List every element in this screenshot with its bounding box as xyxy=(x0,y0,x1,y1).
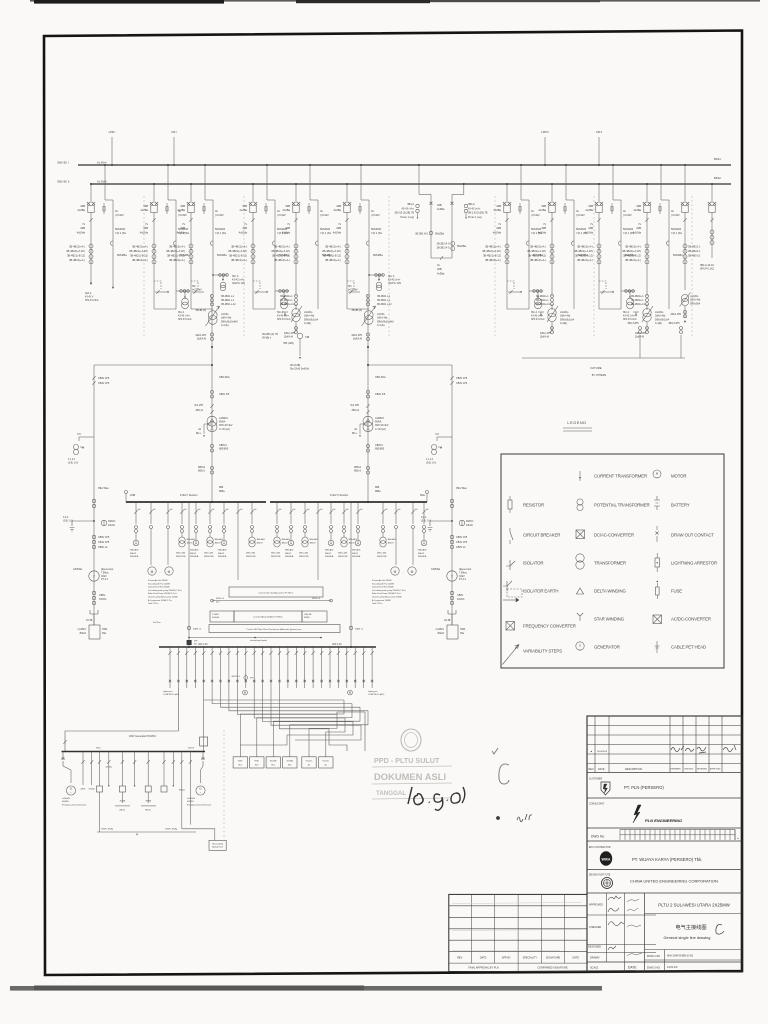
main chain 1 transformer T1a with tap changer xyxy=(208,311,217,320)
svg-text:3B-4B21 s-1: 3B-4B21 s-1 xyxy=(377,295,391,298)
svg-text:3M, A: 3M, A xyxy=(623,311,630,314)
svg-text:CB6x 3/5: CB6x 3/5 xyxy=(219,393,230,396)
dwg number strip xyxy=(587,840,742,842)
main chain 1 lower CT pair after trafo xyxy=(210,333,213,336)
feeder group 10 draw-out breakers xyxy=(551,184,553,203)
svg-text:DOKUMEN ASLI: DOKUMEN ASLI xyxy=(374,771,446,782)
emergency bus right tie xyxy=(329,729,347,751)
svg-text:5MxZM4: 5MxZM4 xyxy=(576,227,587,231)
legend frequency converter xyxy=(506,622,515,631)
6.3kV feeder 4 wire xyxy=(181,502,183,524)
svg-text:BT12Mb: BT12Mb xyxy=(287,761,293,763)
bus 400V AC station service xyxy=(159,646,376,648)
station chain right CT pair upper xyxy=(450,376,453,380)
svg-text:CHECKED: CHECKED xyxy=(684,769,694,771)
svg-text:1003-D0: 1003-D0 xyxy=(667,965,678,969)
WIKA logo xyxy=(600,851,612,866)
svg-text:BB-4C: BB-4C xyxy=(145,810,151,812)
feeder group 10 cable pot head xyxy=(571,241,574,246)
feeder group 11 draw-out breakers xyxy=(598,184,600,203)
svg-text:6B6a: 6B6a xyxy=(375,490,381,493)
svg-text:Y(d 1 (Pa: Y(d 1 (Pa xyxy=(371,231,383,235)
svg-text:C6kV: C6kV xyxy=(101,576,107,578)
svg-text:3B-4B21(+A 1P): 3B-4B21(+A 1P) xyxy=(166,249,185,253)
feeder group 12 cable pot head xyxy=(666,241,669,246)
svg-text:4x6: 4x6 xyxy=(279,509,282,511)
svg-text:3dB: 3dB xyxy=(242,226,247,230)
svg-text:Induced Draft Fan 560kW: Induced Draft Fan 560kW xyxy=(372,586,394,589)
svg-text:HAB,: HAB, xyxy=(460,628,466,631)
legend current transformer xyxy=(579,471,581,481)
emergency generator right xyxy=(201,752,205,767)
svg-text:3dB: 3dB xyxy=(588,226,593,230)
spare load circle left xyxy=(243,690,248,695)
svg-text:3B6sA05: 3B6sA05 xyxy=(325,549,334,552)
svg-text:4x6: 4x6 xyxy=(254,509,257,511)
emergency feeder 10 lighting xyxy=(181,752,183,829)
svg-text:3B-2B2 (4 f): 3B-2B2 (4 f) xyxy=(437,243,450,246)
box feed wires xyxy=(240,700,344,757)
svg-text:PPD - PLTU SULUT: PPD - PLTU SULUT xyxy=(374,756,440,765)
svg-text:3B-4B21s-12: 3B-4B21s-12 xyxy=(631,303,646,306)
svg-text:CB4V 1P5: CB4V 1P5 xyxy=(98,382,110,385)
svg-text:3B-4B21 s-1: 3B-4B21 s-1 xyxy=(221,299,235,302)
legend lightning arrestor xyxy=(655,558,660,567)
main plant powerhouse option zone box xyxy=(209,625,340,633)
main chain 1 isolator ticks xyxy=(210,404,213,408)
svg-text:3dB: 3dB xyxy=(336,204,341,208)
svg-text:5MxZBa: 5MxZBa xyxy=(673,253,683,257)
emergency feeder 1 xyxy=(82,752,84,786)
svg-text:3B6sA05: 3B6sA05 xyxy=(418,549,427,552)
svg-text:5MxZBa: 5MxZBa xyxy=(435,233,445,236)
svg-text:5B6s 4dS: 5B6s 4dS xyxy=(204,553,214,555)
svg-text:EPC CONTRACTOR: EPC CONTRACTOR xyxy=(589,846,611,849)
svg-text:59Kb/5b10x4: 59Kb/5b10x4 xyxy=(304,318,319,321)
svg-text:Interlocking header: Interlocking header xyxy=(250,639,267,642)
svg-text:3B4 s2: 3B4 s2 xyxy=(196,409,204,412)
svg-text:(3 B) 1 kV: (3 B) 1 kV xyxy=(68,462,79,464)
svg-text:3 x 4 A: 3 x 4 A xyxy=(68,458,75,461)
svg-text:FUTURE: FUTURE xyxy=(590,366,601,370)
feeder group 2 bypass loop wire xyxy=(175,212,177,309)
feeder group 6 PT metering branch xyxy=(369,274,383,276)
feeder group 10 bypass loop wire xyxy=(573,212,575,309)
svg-text:DWG NO: DWG NO xyxy=(647,954,661,958)
svg-text:4x6: 4x6 xyxy=(226,509,229,511)
customer section xyxy=(587,797,742,799)
svg-text:3B-4B21(+A 1P): 3B-4B21(+A 1P) xyxy=(574,249,593,253)
svg-text:43-43 (+A+: 43-43 (+A+ xyxy=(388,279,401,282)
emergency feeder 11 xyxy=(189,752,191,825)
svg-text:A-4(E): A-4(E) xyxy=(560,322,567,325)
svg-text:3B1V s2: 3B1V s2 xyxy=(312,598,321,600)
6.3kV feeder 11 wire xyxy=(290,502,292,524)
svg-text:BATTERY: BATTERY xyxy=(671,502,690,507)
svg-text:3dB: 3dB xyxy=(285,204,290,208)
svg-text:3dB: 3dB xyxy=(80,204,85,208)
svg-text:BB-4C: BB-4C xyxy=(120,810,126,812)
svg-text:3B-4B21(+A-): 3B-4B21(+A-) xyxy=(625,258,641,262)
svg-text:35kVA: 35kVA xyxy=(437,632,444,635)
svg-text:24/04/2008: 24/04/2008 xyxy=(597,751,608,753)
400V feeders xyxy=(169,647,171,662)
svg-text:3B-4B21s-12: 3B-4B21s-12 xyxy=(280,303,295,306)
svg-text:(1x35kV: (1x35kV xyxy=(78,629,87,631)
svg-text:电气主接线图: 电气主接线图 xyxy=(675,923,706,931)
svg-text:59Kb/5b4: 59Kb/5b4 xyxy=(690,302,701,305)
svg-text:3B6V2/5B: 3B6V2/5B xyxy=(246,556,256,558)
svg-text:3dKA 4kd: 3dKA 4kd xyxy=(690,299,701,302)
svg-text:3BkV2: 3BkV2 xyxy=(325,553,332,555)
svg-text:5Max: 5Max xyxy=(96,748,101,750)
feeder group 9 bypass loop wire xyxy=(528,212,530,309)
svg-text:DESIGNED: DESIGNED xyxy=(588,946,601,949)
feeder group 2 cable pot head xyxy=(173,241,176,246)
svg-text:[3dKA 4]: [3dKA 4] xyxy=(284,336,293,339)
svg-text:5B/3dKA: 5B/3dKA xyxy=(285,555,294,558)
feeder group 4 bypass loop wire xyxy=(274,212,276,309)
feeder group 10 transformer with tap arrow xyxy=(548,309,556,317)
svg-text:3M, A: 3M, A xyxy=(388,275,395,278)
svg-text:6B5+2: 6B5+2 xyxy=(198,469,206,472)
svg-text:400 V AC: 400 V AC xyxy=(332,643,342,646)
svg-text:Y(d 1 (Pa: Y(d 1 (Pa xyxy=(320,231,332,235)
svg-text:3B-2B2 (4 f): 3B-2B2 (4 f) xyxy=(437,247,450,250)
station chain left CT pair upper xyxy=(92,376,95,380)
svg-text:DRAWN: DRAWN xyxy=(590,957,600,960)
svg-text:(1x35kV: (1x35kV xyxy=(436,629,445,631)
svg-text:CB6V s2: CB6V s2 xyxy=(456,546,466,549)
emergency bus mid tie xyxy=(203,700,205,751)
main chain 1 upper CT stack xyxy=(211,294,213,502)
svg-text:35/6.3/0.4kV: 35/6.3/0.4kV xyxy=(375,424,389,427)
svg-text:(=C3kV: (=C3kV xyxy=(277,213,286,217)
6.3kV feeder 2 wire xyxy=(150,502,152,524)
feeder group 5 transformer with tap arrow xyxy=(292,309,300,317)
station chain right drawout bracket xyxy=(448,610,456,614)
motor group right 6kV xyxy=(391,567,399,575)
svg-text:3B6sA05: 3B6sA05 xyxy=(352,549,361,552)
svg-text:Primary Air Fan 185kW: Primary Air Fan 185kW xyxy=(372,579,392,582)
svg-text:4x2Ba: 4x2Ba xyxy=(239,208,247,212)
svg-text:CONFIRMED SIGNATURE: CONFIRMED SIGNATURE xyxy=(537,967,568,970)
svg-text:GENERATOR: GENERATOR xyxy=(594,644,620,649)
svg-text:3B6V2/5B: 3B6V2/5B xyxy=(338,556,348,558)
incoming riser LPM I xyxy=(111,137,113,165)
svg-text:DWG NO: DWG NO xyxy=(647,966,661,970)
svg-text:5B6s 4dS: 5B6s 4dS xyxy=(338,553,348,555)
legend box xyxy=(501,454,724,668)
svg-text:3kA,A: 3kA,A xyxy=(85,292,92,295)
svg-text:DATE: DATE xyxy=(598,768,605,771)
svg-text:43-43 (+A+: 43-43 (+A+ xyxy=(623,315,636,318)
svg-text:ISOLATOR: ISOLATOR xyxy=(523,560,543,565)
6.3kV feeder 7 wire xyxy=(223,502,225,524)
feeder group 3 draw-out breakers xyxy=(190,184,192,203)
svg-text:3B6V2/5B: 3B6V2/5B xyxy=(299,556,309,558)
svg-text:3dLPG 1dS: 3dLPG 1dS xyxy=(232,282,245,285)
svg-text:LPM I: LPM I xyxy=(109,130,116,134)
svg-text:3B1V s2: 3B1V s2 xyxy=(216,598,225,600)
svg-text:3M (B) s: 3M (B) s xyxy=(262,337,272,340)
svg-text:4x6: 4x6 xyxy=(398,509,401,511)
svg-text:3B-4B21(+A-): 3B-4B21(+A-) xyxy=(325,258,341,262)
svg-text:7.5Mva: 7.5Mva xyxy=(101,572,109,574)
main chain 2 bus connection xyxy=(367,501,369,503)
feeder group 11 CT stack xyxy=(598,222,600,280)
svg-text:6B5/6B5: 6B5/6B5 xyxy=(375,447,385,450)
svg-text:45kVA: 45kVA xyxy=(120,800,126,803)
station chain left transformer xyxy=(89,571,99,581)
main chain 2 transformer T2a with tap changer xyxy=(364,311,373,320)
epc contractor section xyxy=(587,869,742,871)
svg-text:4v: 4v xyxy=(737,838,739,840)
svg-text:3B-4B21(+A-): 3B-4B21(+A-) xyxy=(274,258,290,262)
svg-text:CB4V 1P5: CB4V 1P5 xyxy=(456,382,468,385)
svg-text:3dB: 3dB xyxy=(541,204,546,208)
svg-text:HAB,: HAB, xyxy=(102,628,108,631)
svg-text:3B4,3 2P5: 3B4,3 2P5 xyxy=(627,322,639,325)
svg-text:5MxZBa: 5MxZBa xyxy=(117,253,127,257)
svg-text:PT. PLN (PERSERO): PT. PLN (PERSERO) xyxy=(624,785,664,790)
tie wire to left station transformer xyxy=(94,364,212,366)
feeder group 5 bypass loop wire xyxy=(317,212,319,309)
svg-text:3A 3B: 3A 3B xyxy=(444,619,451,622)
feeder group 12 CT stack 2 xyxy=(646,295,649,298)
legend ac/dc converter xyxy=(653,615,662,624)
svg-text:CB6V 1P5: CB6V 1P5 xyxy=(98,377,110,380)
svg-text:3dKA 1P5: 3dKA 1P5 xyxy=(195,334,206,337)
svg-text:CABLE PET HEAD: CABLE PET HEAD xyxy=(671,644,706,649)
interlock header line xyxy=(189,637,321,639)
emergency feeder 7 transformer xyxy=(147,752,149,787)
svg-text:QPRL: QPRL xyxy=(80,789,85,791)
svg-text:3B-4B21(+A-): 3B-4B21(+A-) xyxy=(69,245,85,249)
emergency generator left xyxy=(61,752,65,767)
svg-text:LGKZ1: LGKZ1 xyxy=(221,313,229,316)
6.3kV feeder 9 wire xyxy=(251,502,253,524)
PLN-E lightning logo xyxy=(633,805,641,823)
feeder group 11 bypass loop wire xyxy=(620,212,622,309)
feeder group 3 cable pot head xyxy=(210,241,213,246)
svg-text:2/3B: 2/3B xyxy=(130,494,135,497)
svg-text:3B-4B21s-12: 3B-4B21s-12 xyxy=(536,303,551,306)
svg-text:CB6V: CB6V xyxy=(457,594,464,597)
svg-text:A-Compressor 160kW 2 Pcs: A-Compressor 160kW 2 Pcs xyxy=(148,599,172,602)
svg-text:5kx (2kA) 5wtGkd: 5kx (2kA) 5wtGkd xyxy=(290,368,310,371)
svg-text:10kVA: 10kVA xyxy=(108,524,115,527)
document stamp circle xyxy=(401,729,421,751)
svg-text:3B-4B21(+A 1P): 3B-4B21(+A 1P) xyxy=(322,249,341,253)
incoming riser CM II xyxy=(598,137,600,165)
scan streaks in approval table xyxy=(452,903,582,904)
main chain 1 CT pair xyxy=(210,390,213,393)
svg-text:35a: 35a xyxy=(102,632,107,635)
svg-text:VARIABILITY STEPS: VARIABILITY STEPS xyxy=(523,648,562,653)
station chain right CT stack xyxy=(450,535,453,538)
svg-text:4x6: 4x6 xyxy=(138,509,141,511)
svg-text:DELTA WINDING: DELTA WINDING xyxy=(594,588,626,593)
station chain right LV CTs xyxy=(450,591,453,594)
svg-text:6Ma: 6Ma xyxy=(420,494,425,497)
tie wire to right station transformer xyxy=(368,364,452,366)
svg-text:CB6V s2: CB6V s2 xyxy=(98,546,108,549)
svg-text:3BkV2: 3BkV2 xyxy=(215,542,222,544)
svg-text:3B-4B21(+A-): 3B-4B21(+A-) xyxy=(169,258,185,262)
check mark xyxy=(492,748,498,754)
svg-text:3BkV2: 3BkV2 xyxy=(257,542,264,544)
svg-text:▲: ▲ xyxy=(590,750,593,753)
standby power box xyxy=(237,571,239,580)
svg-text:5B/3dKA: 5B/3dKA xyxy=(218,555,227,558)
svg-text:(3 B) 1 kV: (3 B) 1 kV xyxy=(421,520,432,522)
incoming riser LPM II xyxy=(544,137,546,165)
svg-text:AC/DC-CONVERTER: AC/DC-CONVERTER xyxy=(671,616,711,621)
station transformer chain left wire xyxy=(93,365,95,625)
feeder group 12 CT stack xyxy=(646,222,648,280)
svg-text:Secondary Air Fan 200kW: Secondary Air Fan 200kW xyxy=(148,582,170,585)
main chain 2 neutral earthing xyxy=(360,423,368,425)
svg-text:59Kb/5b10x4: 59Kb/5b10x4 xyxy=(655,318,670,321)
svg-text:3dKA 4kd: 3dKA 4kd xyxy=(304,315,315,318)
feeder group 4 draw-out breakers xyxy=(252,184,254,203)
svg-text:BT12Mb: BT12Mb xyxy=(270,761,276,763)
approval rows xyxy=(587,914,656,916)
svg-text:3B-4B21(-B 12): 3B-4B21(-B 12) xyxy=(528,254,546,258)
svg-text:REV.: REV. xyxy=(589,768,595,771)
svg-text:5MxZM4: 5MxZM4 xyxy=(671,227,682,231)
svg-text:59Kb/5b10x4: 59Kb/5b10x4 xyxy=(560,318,575,321)
svg-text:3BkV2: 3BkV2 xyxy=(349,542,356,544)
svg-text:4x6: 4x6 xyxy=(307,509,310,511)
svg-text:4dLMa: 4dLMa xyxy=(333,230,342,234)
svg-text:43-43 (+A+: 43-43 (+A+ xyxy=(178,315,191,318)
spare load circle right xyxy=(348,690,353,695)
svg-text:4x6: 4x6 xyxy=(333,509,336,511)
main chain 1 transformer T1 xyxy=(207,416,217,426)
svg-text:5B6s 4dS: 5B6s 4dS xyxy=(176,553,186,555)
svg-text:AL 40x4: AL 40x4 xyxy=(97,161,107,165)
scan edge strip top xyxy=(30,0,760,2)
svg-text:4x2Ba: 4x2Ba xyxy=(437,207,445,211)
ink dot xyxy=(496,816,500,820)
svg-text:3B4,A 43-43: 3B4,A 43-43 xyxy=(700,264,714,267)
svg-text:Induced Draft Fan 560kW: Induced Draft Fan 560kW xyxy=(148,586,170,589)
main chain 2 transformer T2 xyxy=(363,416,373,426)
svg-text:5B/3dKA: 5B/3dKA xyxy=(325,555,334,558)
PLN logo xyxy=(601,782,610,795)
svg-text:(3 B) 1 kV: (3 B) 1 kV xyxy=(63,520,74,522)
coal handling box xyxy=(210,611,234,622)
feeder group 9 cable pot head xyxy=(526,241,529,246)
svg-text:3B-4B21(+A-): 3B-4B21(+A-) xyxy=(577,245,593,249)
earthing link bar xyxy=(97,831,196,833)
svg-text:3B-4B21(-B 12): 3B-4B21(-B 12) xyxy=(623,254,641,258)
svg-text:CHINA UNITED ENGINEERING CORPO: CHINA UNITED ENGINEERING CORPORATION xyxy=(630,879,718,884)
stamp underline xyxy=(372,766,452,767)
svg-text:5MxZM4: 5MxZM4 xyxy=(531,227,542,231)
svg-text:4x1M4a: 4x1M4a xyxy=(105,767,113,769)
svg-text:5MxZM4: 5MxZM4 xyxy=(215,227,226,231)
6.3kV feeder 20 wire xyxy=(423,502,425,524)
feeder group 2 CT stack xyxy=(153,222,155,280)
svg-text:PE-L: PE-L xyxy=(352,433,358,435)
svg-text:Primary Air Fan 185kW: Primary Air Fan 185kW xyxy=(148,579,168,582)
svg-text:4x2Ba: 4x2Ba xyxy=(633,208,641,212)
svg-text:59Kb/5b10x4kV: 59Kb/5b10x4kV xyxy=(377,320,394,323)
svg-text:3B-4B21(+A 1P): 3B-4B21(+A 1P) xyxy=(527,249,546,253)
svg-text:4dLMa: 4dLMa xyxy=(633,230,642,234)
svg-text:DC/AC-CONVERTER: DC/AC-CONVERTER xyxy=(594,532,634,537)
svg-text:3A: 3A xyxy=(354,428,357,431)
svg-text:3dB: 3dB xyxy=(336,226,341,230)
svg-text:Y(d 1 (Pa: Y(d 1 (Pa xyxy=(671,231,683,235)
svg-text:3B6V2/5B: 3B6V2/5B xyxy=(271,556,281,558)
svg-text:Boiler Feed Pump 1250kW 3 Pcs): Boiler Feed Pump 1250kW 3 Pcs) xyxy=(148,592,177,595)
svg-text:5B/3dKA: 5B/3dKA xyxy=(352,555,361,558)
svg-text:LGbZ1s: LGbZ1s xyxy=(655,311,664,314)
svg-text:COMP BLDG (A/C): COMP BLDG (A/C) xyxy=(368,693,385,696)
svg-text:4x6: 4x6 xyxy=(293,509,296,511)
svg-text:CURRENT TRANSFORMER: CURRENT TRANSFORMER xyxy=(594,473,647,478)
svg-text:3B-4B21(+A-): 3B-4B21(+A-) xyxy=(231,245,247,249)
svg-text:COMP BLDG (A/C): COMP BLDG (A/C) xyxy=(163,693,180,696)
svg-text:5B6s 4dS: 5B6s 4dS xyxy=(271,553,281,555)
handwritten revision C xyxy=(716,925,724,935)
svg-text:4x6: 4x6 xyxy=(346,509,349,511)
svg-text:3B-2.B (2x2B) 7B: 3B-2.B (2x2B) 7B xyxy=(468,212,488,215)
svg-text:400kVA: 400kVA xyxy=(212,616,220,619)
svg-text:3dLPG 1dS: 3dLPG 1dS xyxy=(388,282,401,285)
bus BK42 35kV section II xyxy=(90,183,731,185)
svg-text:HDB<: HDB< xyxy=(255,760,260,763)
svg-text:3B-4B21(+A-): 3B-4B21(+A-) xyxy=(132,245,148,249)
svg-text:35kV BC I: 35kV BC I xyxy=(57,161,69,165)
svg-text:3B-4B21(+A-): 3B-4B21(+A-) xyxy=(169,245,185,249)
svg-text:G: G xyxy=(199,787,201,791)
svg-text:T3MPa 7B (A): T3MPa 7B (A) xyxy=(165,828,177,831)
svg-text:PE-L: PE-L xyxy=(196,433,202,435)
feeder group 2 draw-out breakers xyxy=(153,184,155,203)
future feeder bracket xyxy=(522,357,685,359)
svg-text:3B6V2/5B: 3B6V2/5B xyxy=(377,556,387,558)
svg-text:5MxZM4: 5MxZM4 xyxy=(623,227,634,231)
svg-text:Total 12 Pcs: Total 12 Pcs xyxy=(372,602,382,605)
svg-text:43-43 (+A+: 43-43 (+A+ xyxy=(232,279,245,282)
svg-text:6B6a: 6B6a xyxy=(219,490,225,493)
svg-text:3dKA 1P5: 3dKA 1P5 xyxy=(351,334,362,337)
svg-text:(=C3BkV: (=C3BkV xyxy=(348,288,358,291)
svg-text:3M, A: 3M, A xyxy=(277,311,284,314)
main chain 1 bus connection xyxy=(211,501,213,503)
svg-text:A-YD (pd): A-YD (pd) xyxy=(375,428,386,431)
svg-text:DESCRIPTION: DESCRIPTION xyxy=(625,768,642,771)
svg-text:6MVA: 6MVA xyxy=(219,421,226,424)
feeder group 10 CT stack 2 xyxy=(551,295,554,298)
lighting transformer drop xyxy=(244,676,248,680)
svg-text:A-Compressor 160kW: A-Compressor 160kW xyxy=(372,599,391,602)
svg-text:3dB4 s2: 3dB4 s2 xyxy=(355,629,364,631)
revision table xyxy=(587,725,742,727)
svg-text:M: M xyxy=(394,570,397,574)
svg-text:Secondary Air Fan 200kW: Secondary Air Fan 200kW xyxy=(372,582,394,585)
svg-text:PT-4.3: PT-4.3 xyxy=(101,579,108,581)
svg-text:3B-4B21(-B 12): 3B-4B21(-B 12) xyxy=(323,254,341,258)
svg-text:...: ... xyxy=(402,570,405,574)
svg-text:3B4,A: 3B4,A xyxy=(407,203,414,206)
feeder group 6 cable pot head xyxy=(366,241,369,246)
